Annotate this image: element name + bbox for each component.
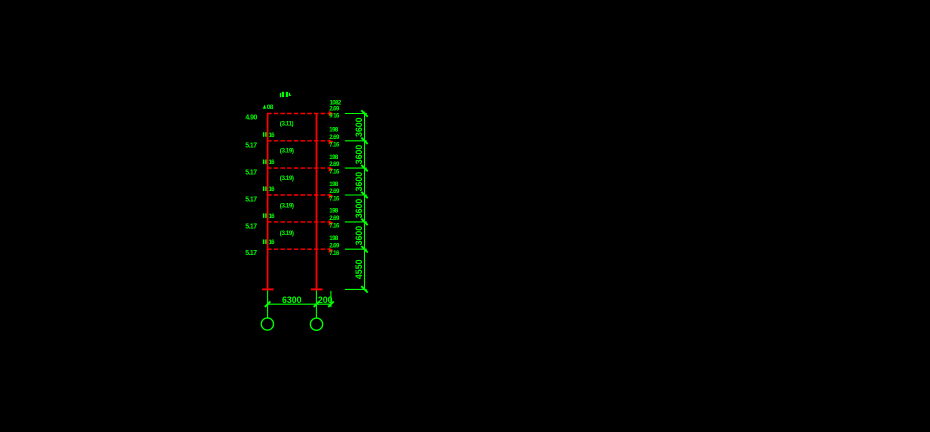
svg-text:2.69: 2.69 bbox=[329, 215, 340, 222]
svg-text:3600: 3600 bbox=[354, 199, 364, 219]
svg-text:08: 08 bbox=[267, 104, 274, 111]
svg-text:5.17: 5.17 bbox=[245, 170, 257, 177]
svg-text:3600: 3600 bbox=[354, 145, 364, 165]
svg-text:198: 198 bbox=[329, 235, 339, 242]
svg-text:(3.19): (3.19) bbox=[280, 175, 294, 182]
svg-text:2.69: 2.69 bbox=[329, 242, 340, 249]
svg-text:7.16: 7.16 bbox=[329, 196, 340, 203]
svg-text:198: 198 bbox=[329, 154, 339, 161]
svg-text:6300: 6300 bbox=[282, 295, 302, 305]
svg-text:7.16: 7.16 bbox=[329, 223, 340, 230]
svg-text:5.17: 5.17 bbox=[245, 250, 257, 257]
svg-text:9 16: 9 16 bbox=[329, 113, 340, 120]
svg-text:7.16: 7.16 bbox=[329, 169, 340, 176]
svg-text:2.69: 2.69 bbox=[329, 188, 340, 195]
svg-text:2.69: 2.69 bbox=[329, 161, 340, 168]
svg-text:7.16: 7.16 bbox=[329, 141, 340, 148]
svg-text:5.17: 5.17 bbox=[245, 197, 257, 204]
svg-text:7.16: 7.16 bbox=[329, 250, 340, 257]
svg-text:(3.19): (3.19) bbox=[280, 230, 294, 237]
svg-text:(3.19): (3.19) bbox=[280, 148, 294, 155]
svg-text:2.69: 2.69 bbox=[329, 134, 340, 141]
svg-text:198: 198 bbox=[329, 127, 339, 134]
svg-text:200: 200 bbox=[318, 295, 333, 305]
svg-text:4.90: 4.90 bbox=[245, 114, 257, 121]
svg-text:5.17: 5.17 bbox=[245, 142, 257, 149]
svg-text:4550: 4550 bbox=[354, 259, 364, 279]
svg-text:3600: 3600 bbox=[354, 117, 364, 137]
svg-text:3600: 3600 bbox=[354, 172, 364, 192]
svg-text:198: 198 bbox=[329, 208, 339, 215]
svg-text:3600: 3600 bbox=[354, 226, 364, 246]
svg-text:5.17: 5.17 bbox=[245, 224, 257, 231]
svg-text:(3.19): (3.19) bbox=[280, 203, 294, 210]
svg-text:(3.11): (3.11) bbox=[280, 120, 294, 127]
svg-text:198: 198 bbox=[329, 181, 339, 188]
